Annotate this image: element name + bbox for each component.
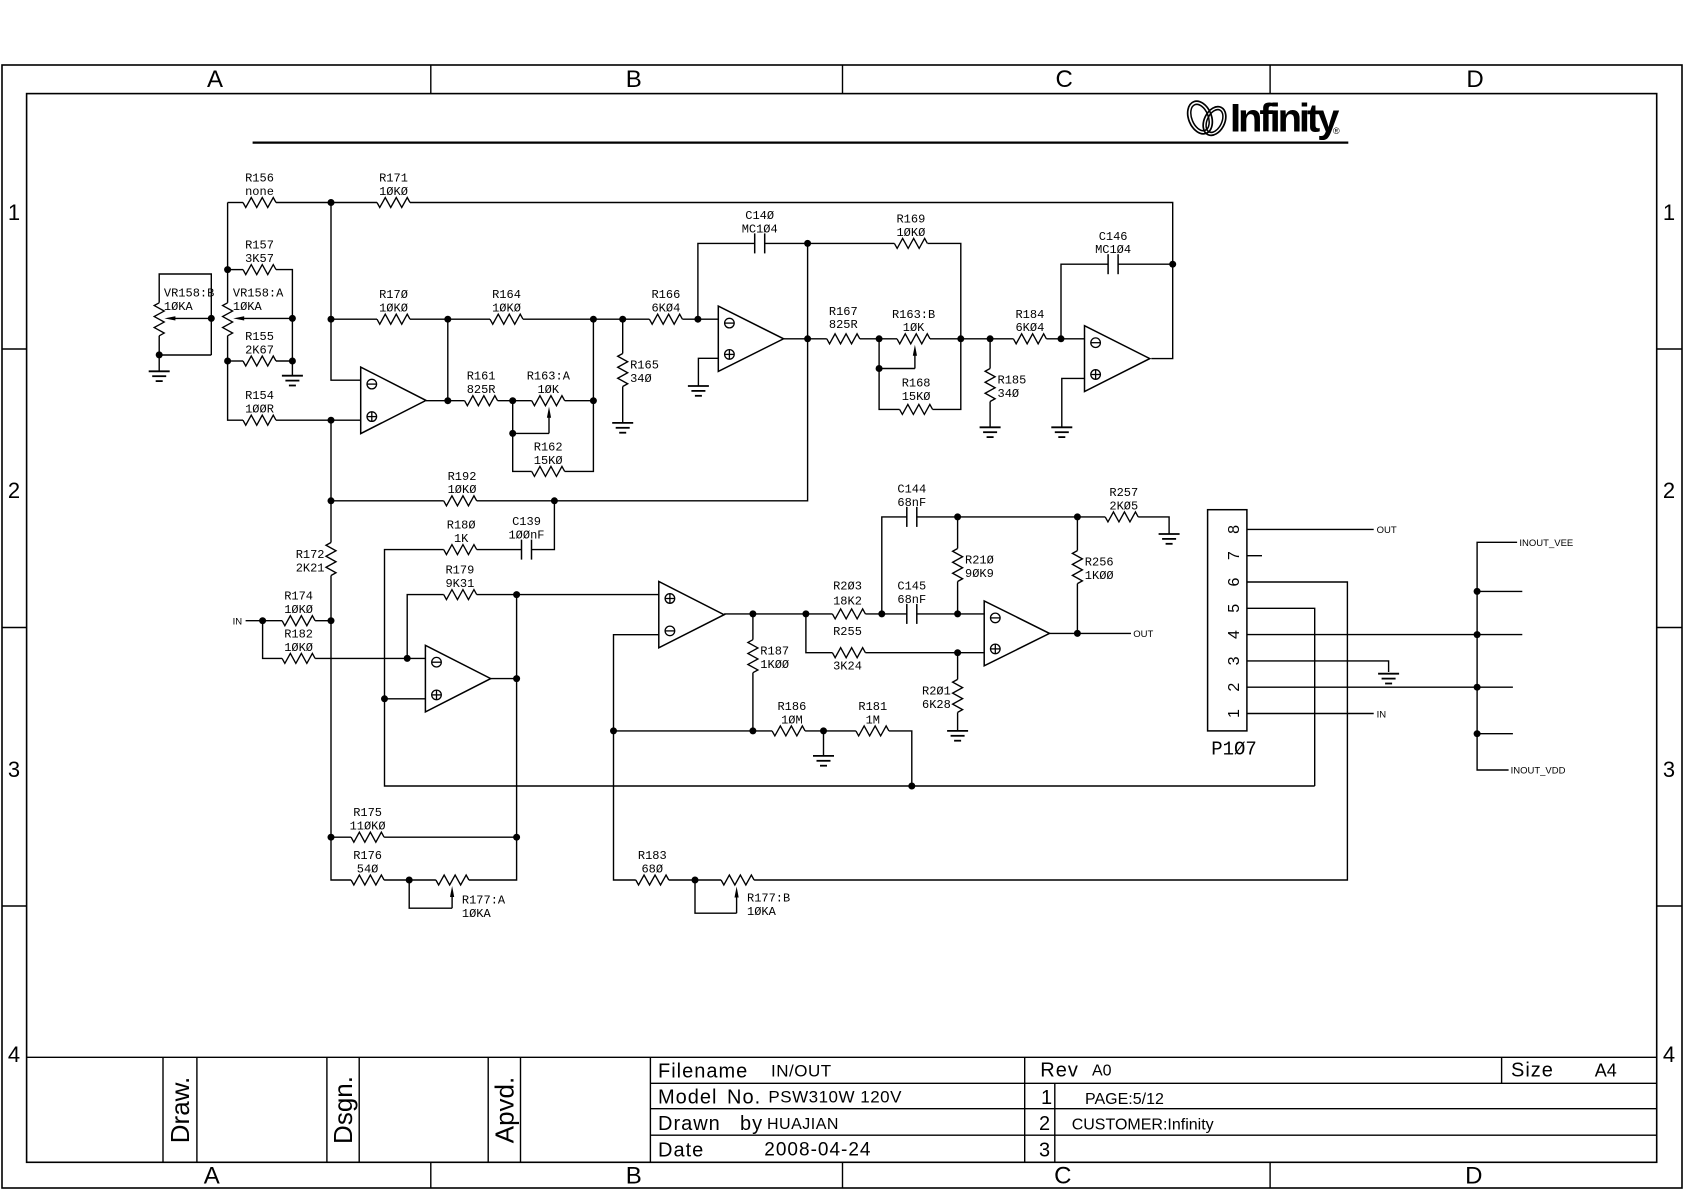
wire R174 right xyxy=(315,620,331,622)
svg-text:®: ® xyxy=(1333,126,1340,136)
svg-text:R177:B: R177:B xyxy=(747,892,790,906)
wire plus bus U1 down xyxy=(330,420,332,542)
wire R257 right to ground xyxy=(1138,517,1169,534)
svg-text:none: none xyxy=(245,185,274,199)
svg-text:1: 1 xyxy=(1226,709,1243,718)
svg-text:OUT: OUT xyxy=(1133,629,1153,640)
svg-text:R157: R157 xyxy=(245,239,274,253)
wire R203 to C145 xyxy=(865,613,906,615)
title block Size xyxy=(1511,1060,1617,1082)
wiper arrow R163:B xyxy=(913,345,917,369)
svg-text:R165: R165 xyxy=(630,359,659,373)
capacitor C140 xyxy=(742,209,778,253)
wire U4 plus pin xyxy=(385,698,426,700)
resistor R192 xyxy=(444,470,477,506)
resistor R162 xyxy=(532,440,565,476)
wire C146 right xyxy=(1118,263,1173,265)
svg-text:825R: 825R xyxy=(829,318,858,332)
svg-text:3: 3 xyxy=(8,757,20,782)
wire U4 output xyxy=(491,678,517,680)
wire R185 bottom stem xyxy=(989,402,991,428)
node R176/R177:A xyxy=(406,877,413,884)
svg-text:R156: R156 xyxy=(245,172,274,186)
svg-text:18K2: 18K2 xyxy=(833,595,862,609)
node R156/R171 xyxy=(328,199,335,206)
svg-text:HUAJIAN: HUAJIAN xyxy=(767,1116,839,1133)
svg-text:A0: A0 xyxy=(1092,1063,1112,1080)
wiper arrow R163:A xyxy=(547,407,551,434)
wire R163:B wiper tap xyxy=(878,339,880,369)
potentiometer R163:A xyxy=(527,370,571,406)
node R163:A wiper tap xyxy=(509,430,516,437)
node R175 right xyxy=(513,834,520,841)
svg-text:1ØKA: 1ØKA xyxy=(233,300,263,314)
svg-text:R168: R168 xyxy=(902,376,931,390)
wire R177:A wiper loop xyxy=(409,880,452,908)
svg-text:R257: R257 xyxy=(1109,486,1138,500)
title block Model row xyxy=(658,1086,902,1108)
potentiometer VR158:B xyxy=(154,287,214,336)
capacitor C146 xyxy=(1095,230,1131,274)
svg-text:Dsgn.: Dsgn. xyxy=(328,1076,358,1144)
svg-text:1: 1 xyxy=(1041,1087,1052,1109)
title block Drawn row xyxy=(658,1113,839,1135)
op-amp U3 xyxy=(1085,326,1150,392)
wire R175 row left xyxy=(331,836,351,838)
svg-text:R186: R186 xyxy=(777,700,806,714)
potentiometer R177:A xyxy=(436,875,506,921)
wire R255 drop xyxy=(806,614,833,653)
svg-text:1K: 1K xyxy=(454,532,469,546)
capacitor C144 xyxy=(897,483,926,527)
wiper arrow R177:A xyxy=(450,886,454,908)
wire VR158:B top loop xyxy=(159,274,211,355)
wire U1 output xyxy=(426,400,465,402)
svg-text:34Ø: 34Ø xyxy=(998,387,1020,401)
svg-text:D: D xyxy=(1465,1163,1482,1190)
wire U5 output row xyxy=(724,613,832,615)
wire R155 right xyxy=(276,360,292,362)
wire U5 minus loop xyxy=(614,635,659,880)
svg-text:R155: R155 xyxy=(245,330,274,344)
resistor R185 xyxy=(985,369,1026,402)
svg-text:R181: R181 xyxy=(858,700,887,714)
svg-text:15KØ: 15KØ xyxy=(902,390,931,404)
resistor R201 xyxy=(922,679,963,712)
svg-text:2: 2 xyxy=(1226,683,1243,692)
svg-text:1ØKØ: 1ØKØ xyxy=(896,226,925,240)
node R187 top xyxy=(749,610,756,617)
wire R169 left xyxy=(808,242,895,244)
wire R186 row xyxy=(614,730,773,732)
connector P107 xyxy=(1208,510,1257,761)
wire R182 to U4 minus xyxy=(315,657,425,659)
wiper arrow VR158:B xyxy=(164,316,211,320)
svg-text:1M: 1M xyxy=(866,713,880,727)
resistor R203 xyxy=(832,580,865,619)
wire R187 bottom stem xyxy=(752,673,754,731)
wire R186 to R181 xyxy=(805,730,856,732)
resistor R184 xyxy=(1013,308,1046,344)
svg-text:C139: C139 xyxy=(512,515,541,529)
svg-text:1ØKØ: 1ØKØ xyxy=(492,302,521,316)
svg-text:R192: R192 xyxy=(448,470,477,484)
wire R192 right xyxy=(477,500,555,502)
wire C144 left vertical xyxy=(882,517,907,614)
svg-text:R256: R256 xyxy=(1085,556,1114,570)
svg-text:4: 4 xyxy=(1663,1042,1675,1067)
resistor R175 xyxy=(350,806,386,842)
wire R177:A right up xyxy=(469,837,517,880)
svg-text:IN: IN xyxy=(1377,709,1387,720)
node R157 left xyxy=(224,266,231,273)
node R183/R177:B xyxy=(692,877,699,884)
svg-text:R164: R164 xyxy=(492,288,521,302)
ground VR158:B xyxy=(149,355,170,381)
potentiometer VR158:A xyxy=(223,287,285,336)
wire R168 right up to R169 xyxy=(928,243,961,409)
node U6 output xyxy=(1074,630,1081,637)
svg-text:2: 2 xyxy=(1663,478,1675,503)
node R255 tap xyxy=(802,610,809,617)
ground R201 xyxy=(947,731,968,741)
op-amp U1 xyxy=(361,367,426,434)
wiper arrow R177:B xyxy=(735,887,739,914)
resistor R181 xyxy=(856,700,889,736)
wire tap down to R162 left xyxy=(513,433,532,471)
resistor R167 xyxy=(827,305,860,344)
wire wiper horizontal R163:B xyxy=(879,368,915,370)
node R163:A right xyxy=(590,397,597,404)
svg-text:2K67: 2K67 xyxy=(245,343,274,357)
wire R170 to R164 xyxy=(410,318,490,320)
svg-text:68nF: 68nF xyxy=(897,496,926,510)
svg-text:54Ø: 54Ø xyxy=(357,862,379,876)
wire C146 left vertical xyxy=(1061,264,1108,339)
svg-text:R255: R255 xyxy=(833,625,862,639)
resistor R165 xyxy=(618,354,659,387)
svg-text:R21Ø: R21Ø xyxy=(965,554,994,568)
node R210 bottom xyxy=(954,610,961,617)
wire plus node down to rail xyxy=(385,699,1315,786)
resistor R186 xyxy=(772,700,806,736)
svg-text:R2Ø3: R2Ø3 xyxy=(833,580,862,594)
svg-text:1ØØnF: 1ØØnF xyxy=(508,529,544,543)
svg-text:R18Ø: R18Ø xyxy=(447,519,476,533)
svg-text:R161: R161 xyxy=(467,370,496,384)
wire R161 to R163:A xyxy=(498,400,532,402)
wire R180 left down xyxy=(385,550,444,699)
svg-text:R174: R174 xyxy=(284,590,313,604)
ground R185 xyxy=(980,427,1001,437)
svg-text:R187: R187 xyxy=(760,645,789,659)
wire C140 left vertical xyxy=(698,243,755,319)
svg-text:R175: R175 xyxy=(353,806,382,820)
wire IN stub xyxy=(246,620,263,622)
resistor R171 xyxy=(377,172,410,208)
svg-text:3: 3 xyxy=(1226,656,1243,665)
svg-text:3K57: 3K57 xyxy=(245,252,274,266)
svg-text:PSW310W 120V: PSW310W 120V xyxy=(768,1088,902,1107)
wire C144 row to R257 xyxy=(958,516,1106,518)
svg-text:3: 3 xyxy=(1663,757,1675,782)
wire R192 row xyxy=(331,500,444,502)
wire U2 output xyxy=(784,338,827,340)
node R179 right xyxy=(513,591,520,598)
wire R166 to op-amp U2 minus xyxy=(682,318,718,320)
resistor R157 xyxy=(243,239,276,275)
svg-text:1ØK: 1ØK xyxy=(903,321,925,335)
resistor R161 xyxy=(465,370,498,406)
potentiometer R163:B xyxy=(892,308,935,344)
node rail R181 xyxy=(908,783,915,790)
svg-text:34Ø: 34Ø xyxy=(630,372,652,386)
svg-text:Model: Model xyxy=(658,1086,717,1108)
wire P107 pin 8 to OUT xyxy=(1247,528,1374,530)
svg-text:3: 3 xyxy=(1039,1140,1050,1162)
resistor R164 xyxy=(490,288,523,324)
resistor R210 xyxy=(953,549,994,582)
svg-text:C: C xyxy=(1056,66,1073,93)
svg-text:Drawn: Drawn xyxy=(658,1113,721,1135)
node R163:B right xyxy=(957,335,964,342)
svg-text:Date: Date xyxy=(658,1140,704,1162)
wire R164 to R166 xyxy=(523,318,649,320)
svg-text:INOUT_VEE: INOUT_VEE xyxy=(1519,538,1573,549)
node R192/C139 xyxy=(551,497,558,504)
resistor R255 xyxy=(832,625,865,673)
node IN xyxy=(259,617,266,624)
wire R185 top stem xyxy=(989,339,991,369)
node U4 plus xyxy=(381,695,388,702)
svg-text:1ØK: 1ØK xyxy=(537,383,559,397)
node pin4 junction xyxy=(1474,631,1481,638)
svg-text:VR158:A: VR158:A xyxy=(233,287,284,301)
wire U2 output vertical to R192 row xyxy=(554,243,807,500)
svg-text:8: 8 xyxy=(1226,525,1243,534)
svg-text:1ØKA: 1ØKA xyxy=(747,905,777,919)
Infinity logo text xyxy=(1230,97,1340,141)
svg-text:2KØ5: 2KØ5 xyxy=(1109,499,1138,513)
svg-text:C144: C144 xyxy=(897,483,926,497)
node C144 right xyxy=(954,513,961,520)
node C144 tap xyxy=(878,610,885,617)
svg-text:Infinity: Infinity xyxy=(1230,97,1340,141)
svg-text:15KØ: 15KØ xyxy=(534,454,563,468)
node R163:B wiper tap xyxy=(876,365,883,372)
svg-text:1ØKØ: 1ØKØ xyxy=(448,483,477,497)
op-amp U4 xyxy=(425,645,490,712)
svg-text:4: 4 xyxy=(8,1042,20,1067)
wire U4 feedback vertical xyxy=(516,595,518,838)
wire R179 loop xyxy=(407,595,444,659)
op-amp U5 xyxy=(659,582,724,648)
svg-text:3K24: 3K24 xyxy=(833,660,862,674)
node U4 output xyxy=(513,675,520,682)
svg-text:6KØ4: 6KØ4 xyxy=(651,302,680,316)
resistor R156 xyxy=(243,172,276,208)
svg-text:by: by xyxy=(740,1113,763,1135)
wire U6 output xyxy=(1050,632,1132,634)
svg-text:2008-04-24: 2008-04-24 xyxy=(764,1140,871,1161)
node U1 plus xyxy=(328,417,335,424)
svg-text:OUT: OUT xyxy=(1377,525,1397,536)
wire R256 bottom stem xyxy=(1076,584,1078,634)
wire stub node 2 xyxy=(1477,733,1513,735)
zone column labels top xyxy=(207,66,1484,93)
resistor R155 xyxy=(243,330,276,366)
wire C140 right xyxy=(765,242,808,244)
svg-text:2K21: 2K21 xyxy=(296,561,325,575)
svg-text:R169: R169 xyxy=(896,212,925,226)
svg-text:1: 1 xyxy=(8,200,20,225)
svg-text:R2Ø1: R2Ø1 xyxy=(922,684,951,698)
node VR158:B bottom xyxy=(156,351,163,358)
svg-text:B: B xyxy=(626,66,642,93)
wire bus R172 to R174 xyxy=(330,576,332,659)
node R161/R163:A xyxy=(509,397,516,404)
wire P107 pin 3 to ground xyxy=(1247,661,1389,672)
node stub 1 xyxy=(1474,588,1481,595)
svg-text:R179: R179 xyxy=(445,564,474,578)
svg-text:R177:A: R177:A xyxy=(462,894,506,908)
svg-text:11ØKØ: 11ØKØ xyxy=(350,820,386,834)
svg-text:1ØKØ: 1ØKØ xyxy=(284,641,313,655)
wire R156 row xyxy=(228,202,243,204)
svg-text:R163:B: R163:B xyxy=(892,308,935,322)
resistor R170 xyxy=(377,288,410,324)
svg-text:P1Ø7: P1Ø7 xyxy=(1211,739,1257,761)
svg-text:68nF: 68nF xyxy=(897,593,926,607)
node R201 top xyxy=(954,649,961,656)
node R256 top xyxy=(1074,513,1081,520)
svg-text:IN/OUT: IN/OUT xyxy=(771,1062,832,1081)
node C140 right xyxy=(804,240,811,247)
wire R201 bottom stem xyxy=(957,712,959,731)
svg-text:1ØKØ: 1ØKØ xyxy=(284,603,313,617)
svg-text:R184: R184 xyxy=(1015,308,1044,322)
svg-text:R166: R166 xyxy=(651,288,680,302)
svg-text:68Ø: 68Ø xyxy=(641,862,663,876)
node stub 2 xyxy=(1474,730,1481,737)
node U4 minus xyxy=(404,655,411,662)
svg-text:1: 1 xyxy=(1663,200,1675,225)
svg-text:2: 2 xyxy=(1039,1113,1050,1135)
svg-text:IN: IN xyxy=(233,616,243,627)
resistor R179 xyxy=(444,564,477,600)
svg-text:A4: A4 xyxy=(1595,1061,1617,1081)
wire C139 drop xyxy=(532,501,555,550)
ground R165 xyxy=(612,423,633,433)
resistor R168 xyxy=(900,376,933,414)
wire C145 to U6 minus xyxy=(917,613,984,615)
zone row labels left xyxy=(8,200,20,1067)
wire feedback vertical U1 xyxy=(447,319,449,401)
svg-text:INOUT_VDD: INOUT_VDD xyxy=(1511,766,1566,777)
node R192 left xyxy=(328,497,335,504)
node pin2 junction xyxy=(1474,684,1481,691)
wire R154 to op-amp U1 plus xyxy=(276,419,361,421)
svg-text:D: D xyxy=(1466,66,1483,93)
wire R163:A right xyxy=(565,400,594,402)
node R174 right xyxy=(328,617,335,624)
wire R210 top stem xyxy=(957,517,959,549)
svg-text:1ØKA: 1ØKA xyxy=(164,300,194,314)
wire U2 plus to ground xyxy=(698,358,718,386)
svg-text:Size: Size xyxy=(1511,1060,1554,1082)
svg-text:9K31: 9K31 xyxy=(445,577,474,591)
svg-text:MC1Ø4: MC1Ø4 xyxy=(742,222,778,236)
wire R187 top stem xyxy=(752,614,754,640)
svg-text:Draw.: Draw. xyxy=(165,1077,195,1143)
wire U3 plus to ground xyxy=(1062,378,1085,427)
wire R184 to U3 minus xyxy=(1046,338,1084,340)
svg-text:1ØØR: 1ØØR xyxy=(245,403,274,417)
svg-text:R185: R185 xyxy=(998,374,1027,388)
svg-text:6KØ4: 6KØ4 xyxy=(1015,321,1044,335)
wire R165 top stem xyxy=(622,319,624,353)
svg-text:Filename: Filename xyxy=(658,1061,748,1083)
wire P107 pin 7 stub xyxy=(1247,555,1262,557)
resistor R174 xyxy=(282,590,315,626)
wire left bus R156-R154 xyxy=(227,203,229,303)
wire R163:B right xyxy=(930,338,961,340)
ground VR158:A rail xyxy=(282,376,303,386)
wire R156 to R171 xyxy=(276,202,377,204)
node R170/R164 feedback xyxy=(444,316,451,323)
svg-text:R154: R154 xyxy=(245,389,274,403)
wire R157 row xyxy=(228,269,243,271)
svg-text:C145: C145 xyxy=(897,580,926,594)
node U2 output xyxy=(804,335,811,342)
wire INOUT_VEE vertical xyxy=(1477,542,1517,770)
capacitor C145 xyxy=(897,580,926,624)
op-amp U2 xyxy=(718,306,783,371)
svg-text:R172: R172 xyxy=(296,548,325,562)
svg-text:7: 7 xyxy=(1226,551,1243,560)
wire bus below to R175 xyxy=(330,658,332,837)
svg-text:R176: R176 xyxy=(353,849,382,863)
ground P107 pin 3 xyxy=(1378,674,1399,684)
node R186/R181 ground tap xyxy=(820,727,827,734)
wire wiper horizontal R163:A xyxy=(513,432,549,434)
ground R257 xyxy=(1159,534,1180,544)
wire R157 right to pot A right rail xyxy=(276,270,292,361)
logo underline xyxy=(253,141,1349,143)
wire C139 to R180 xyxy=(477,549,522,551)
wire R155 row xyxy=(228,360,243,362)
resistor R256 xyxy=(1072,551,1113,584)
svg-text:6K28: 6K28 xyxy=(922,698,951,712)
svg-text:A: A xyxy=(207,66,223,93)
title block grid xyxy=(27,1057,1657,1162)
node C146 left tap xyxy=(1058,335,1065,342)
wire R170 row xyxy=(331,318,377,320)
capacitor C139 xyxy=(508,515,544,559)
wire R183 to R177:B xyxy=(669,879,721,881)
wire tap down to R168 xyxy=(879,369,900,410)
wire pot A rail to ground xyxy=(291,361,293,376)
resistor R182 xyxy=(282,627,315,663)
node R170 left xyxy=(328,316,335,323)
wire R163:A wiper tap xyxy=(512,401,514,434)
resistor R183 xyxy=(636,849,669,885)
node R187 bottom xyxy=(749,727,756,734)
svg-text:1ØKØ: 1ØKØ xyxy=(379,185,408,199)
node R163:A right rail top xyxy=(590,316,597,323)
resistor R257 xyxy=(1105,486,1138,522)
wire R163:B to R184 row xyxy=(961,338,1014,340)
